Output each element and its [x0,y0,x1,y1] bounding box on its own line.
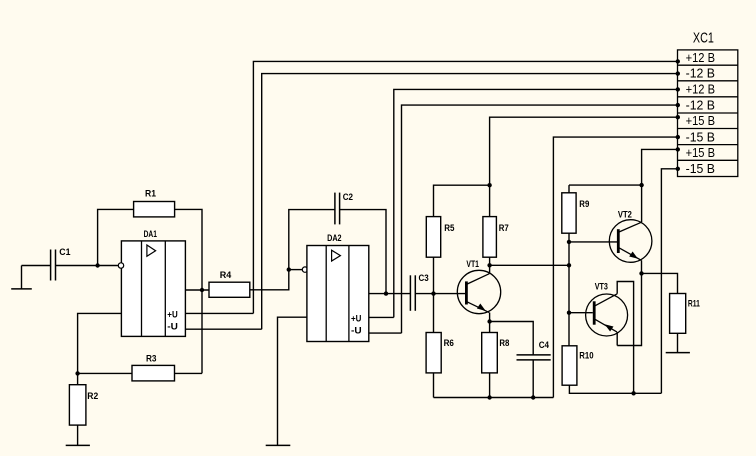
wire node down to R2 [77,373,79,384]
wire R3 right to output vertical [175,372,203,374]
junction XC1 pin 3 [676,87,680,91]
wire VT3 base [569,312,593,314]
wire VT1 stage -15V rail [434,397,554,399]
svg-text:R10: R10 [579,350,593,360]
wire +15V node to R5 top [434,185,490,216]
junction DA2 output / C2 feedback [384,291,388,295]
wire node to R3 [78,372,132,374]
ground at R11 [666,333,690,352]
svg-text:R3: R3 [146,353,157,363]
DA2 inverting input inversion circle [302,267,307,272]
wire R1 to output vertical [175,209,202,373]
junction node A (C1/R1/DA1 in) [95,263,99,267]
svg-text:VT1: VT1 [466,259,479,269]
wire R4 to DA2 inverting node [250,270,289,290]
svg-text:VT3: VT3 [595,282,608,292]
wire emitter tap to C4 [490,322,534,355]
svg-text:DA2: DA2 [327,233,342,243]
transistor VT1 [457,270,500,313]
wire -12V net: XC1 pin4 to DA2 -U rail riser [402,105,678,333]
wire DA2 inverting node to input [289,269,303,271]
junction C4/rail [531,395,535,399]
resistor R4 [209,282,250,297]
resistor R3 [132,365,175,381]
wire -15V net: XC1 pin8 riser to VT3 stage rail [661,169,677,393]
junction DA2 inverting node (C2/R4) [287,267,291,271]
wire VT3 collector to bottom rail [617,282,633,394]
svg-text:R7: R7 [499,223,509,233]
wire emitter node to R11 [642,273,678,293]
ground at R2 [66,425,90,445]
svg-text:R4: R4 [220,270,232,280]
wire R6 bottom to rail [433,373,435,398]
wire R9 bottom to R10 top (bias column) [568,233,570,346]
wire DA2 -U pin to -12V riser [369,332,402,334]
connector XC1 [678,50,738,177]
wire VT3 emitter join [616,332,618,346]
svg-text:C3: C3 [419,273,429,283]
junction R2/R3/DA1+ node [75,371,79,375]
wire DA1 +U pin to +12V riser [185,312,253,314]
wire C4 bottom to rail [532,360,534,398]
resistor R2 [69,385,86,425]
wire R8 bottom to rail [489,373,491,398]
junction DA1 output node [200,288,204,292]
wire -12V net: XC1 pin2 to DA1 -U rail riser [262,74,678,330]
svg-text:+12 В: +12 В [686,82,715,97]
resistor R5 [426,217,440,258]
junction VT3 base tap [567,311,571,315]
svg-text:+12 В: +12 В [686,50,715,65]
svg-text:DA1: DA1 [144,229,157,239]
svg-text:+U: +U [351,313,361,323]
ground at C1 input [11,266,32,289]
svg-text:R8: R8 [499,338,509,348]
wire DA2 non-inverting input to ground [278,317,307,445]
transistor VT2 [609,220,652,263]
wire C2 right branch to DA2 output [340,210,386,294]
svg-text:R5: R5 [444,223,454,233]
svg-text:+15 В: +15 В [686,145,715,160]
junction XC1 pin 6 [676,135,680,139]
wire VT2 emitter down / over to VT3 emitter [617,260,641,345]
wire R7 bottom to VT1 collector [489,257,491,274]
junction VT1 collector node [487,263,491,267]
svg-text:-U: -U [167,322,178,332]
svg-text:XC1: XC1 [693,29,714,46]
DA1 inverting input inversion circle [118,263,123,268]
svg-text:R2: R2 [87,391,98,401]
wire C3 to VT1 base [415,293,465,295]
op-amp DA1 [121,241,185,337]
resistor R11 [670,294,686,334]
wire -15V net: XC1 pin6 riser to VT1 stage ground rail [553,137,677,397]
ground at DA2 non-inverting input [266,444,291,446]
svg-text:C1: C1 [59,247,70,257]
wire +12V net: XC1 pin3 to DA2 +U rail riser [394,89,678,317]
junction VT2 base tap [567,240,571,244]
junction VT3 collector / rail [631,391,635,395]
wire VT1 emitter down to R8 [489,313,491,333]
wire ground to C1 [22,265,51,267]
junction XC1 pin 5 [676,115,680,119]
svg-text:-15 В: -15 В [686,161,715,176]
junction +15V/R9/VT2 collector [639,183,643,187]
capacitor C4 [517,355,551,360]
junction XC1 pin 8 [676,167,680,171]
junction XC1 pin 7 [676,147,680,151]
wire +12V net: XC1 pin1 to DA1 +U rail riser [253,61,677,313]
wire DA2 output to C3 [369,293,411,295]
resistor R1 [134,202,175,217]
wire +15V net: XC1 pin5 riser to R5/R7 node [490,117,678,216]
wire +15V net: XC1 pin7 riser to R9/VT2 collector [642,149,678,222]
wire DA1 -U pin to -12V riser [185,328,261,330]
junction R5/R6/VT1 base node [431,291,435,295]
wire DA1 output to R4 [185,289,209,291]
op-amp DA2 [307,246,369,342]
resistor R9 [562,193,576,233]
junction XC1 pin 4 [676,103,680,107]
resistor R6 [426,333,441,373]
svg-text:C2: C2 [343,192,353,202]
wire DA2 +U pin to +12V riser [369,316,394,318]
junction +15V R5/R7 node [487,183,491,187]
wire C1 to DA1 inverting input, node A [56,265,119,267]
svg-text:+15 В: +15 В [686,113,715,128]
wire C2 left branch [289,210,335,270]
junction VT1 collector feed tap [567,263,571,267]
svg-text:+U: +U [167,309,177,319]
junction XC1 pin 2 [676,71,680,75]
svg-text:-12 В: -12 В [686,66,715,81]
svg-text:-15 В: -15 В [686,129,715,144]
junction R8/rail [487,395,491,399]
junction VT1 emitter / C4 tap [487,319,491,323]
wire +15V to R9 top [569,184,642,186]
resistor R10 [562,346,577,385]
junction VT2 emitter / R11 node [639,271,643,275]
capacitor C1 [51,250,56,281]
junction XC1 pin 1 [676,59,680,63]
svg-text:R1: R1 [145,189,156,199]
svg-text:R11: R11 [688,298,700,308]
resistor R7 [483,217,497,258]
capacitor C3 [410,275,415,311]
svg-text:VT2: VT2 [618,209,632,219]
svg-text:-12 В: -12 В [686,98,715,113]
wire DA1 non-inverting input down to R2/R3 node [78,313,122,373]
wire VT2 base [569,241,617,243]
wire VT1 collector node to VT2/VT3 base column [490,264,569,266]
svg-text:C4: C4 [539,340,550,350]
wire node A up to R1 [98,209,134,265]
transistor VT3 (PNP) [586,294,628,336]
svg-text:R6: R6 [444,338,454,348]
capacitor C2 [335,193,340,225]
wire R5 bottom to base node and R6 [433,257,435,332]
svg-text:R9: R9 [579,199,589,209]
wire VT3 stage -15V rail [569,385,661,393]
svg-text:-U: -U [351,326,362,336]
resistor R8 [482,333,498,373]
